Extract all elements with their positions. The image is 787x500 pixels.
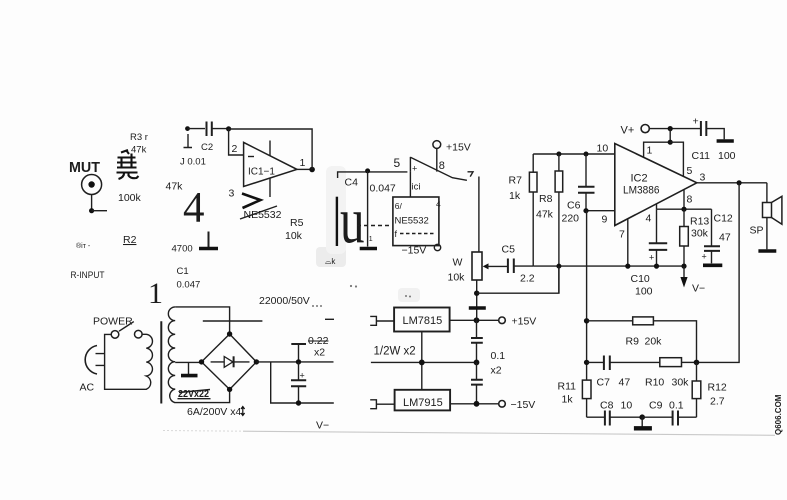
svg-text:V+: V+ <box>621 125 635 137</box>
node gnd right <box>474 360 480 366</box>
wire jack stem <box>91 195 93 211</box>
label x2 <box>491 365 502 377</box>
svg-text:30k: 30k <box>691 228 709 240</box>
svg-text:0.1: 0.1 <box>669 400 684 412</box>
node bridge right <box>254 359 259 364</box>
resistor R12 <box>692 362 701 417</box>
node C10 bottom <box>654 264 659 269</box>
wire gnd rail regulators <box>371 361 477 363</box>
connector 7815 input <box>370 316 394 325</box>
wire top rail stage2 <box>533 153 615 155</box>
wire dashes artifact <box>357 225 392 227</box>
connector stub below C2 <box>184 134 193 148</box>
svg-text:8: 8 <box>687 194 693 206</box>
wire secondary center tap <box>175 361 201 363</box>
wire jack stub <box>92 210 107 212</box>
label 10 C8 <box>621 400 633 412</box>
wire faint scan line <box>163 431 775 436</box>
label 4700 <box>172 244 193 255</box>
glyph artifact dots <box>312 285 411 307</box>
svg-text:R10: R10 <box>645 377 664 389</box>
node pin7 <box>625 264 630 269</box>
capacitor C7 <box>587 356 660 371</box>
svg-text:7: 7 <box>619 229 625 241</box>
glyph artifact u <box>340 185 365 258</box>
svg-text:x2: x2 <box>314 347 325 359</box>
wire stray horizontal <box>203 320 263 322</box>
IC LM7815 <box>394 308 450 332</box>
resistor R13 <box>680 209 689 266</box>
label -15V <box>511 399 536 411</box>
transformer T1 primary <box>105 334 153 389</box>
svg-text:10: 10 <box>621 400 633 412</box>
capacitor 0.1 lower <box>471 362 483 403</box>
node pot bottom <box>474 291 479 296</box>
svg-text:47: 47 <box>619 377 631 389</box>
svg-text:0.047: 0.047 <box>370 183 396 195</box>
svg-text:+: + <box>702 252 707 262</box>
svg-text:R-INPUT: R-INPUT <box>71 270 105 281</box>
label 0.1 C9 <box>669 400 684 412</box>
glyph artifact 1 <box>148 277 163 310</box>
node +15V <box>474 317 480 323</box>
label -15V op <box>402 245 427 257</box>
op-amp IC1-2 partial <box>410 157 467 180</box>
ground speaker <box>758 249 776 253</box>
label C10 <box>631 273 650 285</box>
label J 0.01 <box>180 157 206 168</box>
svg-text:10k: 10k <box>448 272 466 284</box>
svg-text:MUT: MUT <box>69 159 100 176</box>
svg-text:R12: R12 <box>708 382 727 394</box>
svg-text:8: 8 <box>439 160 445 172</box>
svg-text:u: u <box>340 185 365 258</box>
label 47k R3 <box>131 145 147 156</box>
label 2.7 R12 <box>710 396 725 408</box>
capacitor filter film <box>291 344 306 362</box>
label C6 <box>567 200 581 212</box>
label 0.047 C4 <box>370 183 396 195</box>
wire pin 8 <box>683 190 685 209</box>
wire secondary top <box>175 307 229 332</box>
label ici <box>412 182 421 193</box>
wire feedback drop <box>697 183 740 363</box>
label V- power <box>316 420 329 432</box>
svg-text:Q606.COM: Q606.COM <box>774 394 783 435</box>
wire bridge L drop <box>271 362 334 403</box>
artifact gray smudge <box>316 166 420 302</box>
wire pot gnd drop <box>476 280 478 320</box>
resistor R8 <box>555 154 563 293</box>
svg-text:IC2: IC2 <box>631 173 648 185</box>
label 22Vx2 struck <box>178 388 211 400</box>
svg-text:30k: 30k <box>672 377 690 389</box>
label C2 <box>201 142 213 153</box>
svg-text:47k: 47k <box>131 145 147 156</box>
svg-text:C2: C2 <box>201 142 213 153</box>
svg-text:+: + <box>412 164 417 174</box>
label 220 C6 <box>562 213 580 225</box>
svg-text:2.2: 2.2 <box>520 273 535 285</box>
label R5 <box>290 217 304 229</box>
label 30k R13 <box>691 228 709 240</box>
svg-text:1: 1 <box>647 145 653 157</box>
label R3 <box>130 132 148 143</box>
glyph artifact CJK <box>117 150 139 179</box>
wire V+ to C11 <box>649 128 700 130</box>
label 0.22 struck <box>308 335 329 347</box>
label pin 1 <box>300 157 306 169</box>
rectifier bridge D1 <box>202 334 257 389</box>
svg-text:C11: C11 <box>692 150 711 162</box>
label V+ <box>621 125 635 137</box>
svg-text:+: + <box>649 253 654 263</box>
wire mid rail <box>533 265 684 267</box>
node R8 top <box>556 152 561 157</box>
svg-text:100: 100 <box>718 150 736 162</box>
label 22000/50V <box>259 295 310 307</box>
wire feedback loop <box>229 129 313 170</box>
svg-text:−15V: −15V <box>511 399 536 411</box>
svg-text:LM7815: LM7815 <box>403 315 443 327</box>
svg-text:6A/200V x4: 6A/200V x4 <box>187 406 241 418</box>
label pin 2 <box>232 143 238 155</box>
ground feedback <box>634 417 652 428</box>
label +15V op <box>446 142 471 154</box>
svg-text:+: + <box>693 116 699 128</box>
svg-text:R13: R13 <box>690 216 709 228</box>
svg-text:9: 9 <box>602 214 608 226</box>
label 2.2 C5 <box>520 273 535 285</box>
label R13 <box>690 216 709 228</box>
wire secondary bottom <box>174 389 229 402</box>
wire C4 down <box>367 171 369 247</box>
node gnd fb <box>639 414 645 420</box>
wire 7815 out <box>450 319 499 321</box>
svg-text:R2: R2 <box>123 234 137 246</box>
terminal +15V op <box>433 141 441 149</box>
svg-text:NE5532: NE5532 <box>395 216 429 227</box>
wire pin 9 <box>586 210 615 212</box>
node V+ <box>668 126 673 131</box>
label C7 <box>597 377 611 389</box>
label pin 10 <box>597 143 609 155</box>
node pin1 V+ <box>668 140 673 145</box>
svg-text:100: 100 <box>635 286 653 298</box>
label 1k R7 <box>509 190 521 202</box>
capacitor C2 <box>188 122 229 137</box>
svg-text:1: 1 <box>148 277 163 310</box>
label C8 <box>600 400 614 412</box>
connector 7915 input <box>370 400 394 409</box>
label C5 <box>502 244 516 256</box>
label 0.047 C1 <box>177 280 201 291</box>
glyph artifact 4 <box>183 185 205 232</box>
glyph artifact gt <box>242 194 261 209</box>
svg-text:C5: C5 <box>502 244 516 256</box>
svg-text:C12: C12 <box>714 213 733 225</box>
wire +15V down <box>436 148 438 171</box>
node pin1 <box>309 167 315 173</box>
svg-text:R5: R5 <box>290 217 304 229</box>
svg-text:®іт -: ®іт - <box>76 242 91 250</box>
label C12 <box>714 213 733 225</box>
node R8 bottom <box>556 264 561 269</box>
label 47 C7 <box>619 377 631 389</box>
node pin8 <box>681 207 686 212</box>
svg-text:+15V: +15V <box>446 142 471 154</box>
node bridge top <box>227 331 232 336</box>
svg-text:2: 2 <box>232 143 238 155</box>
svg-text:1: 1 <box>369 236 373 243</box>
svg-text:C6: C6 <box>567 200 581 212</box>
capacitor C6 <box>578 154 595 211</box>
svg-text:+: + <box>300 371 305 381</box>
label R9 <box>626 336 640 348</box>
svg-text:47k: 47k <box>166 181 184 193</box>
label 1/2W x2 <box>374 346 416 358</box>
svg-text:C8: C8 <box>600 400 614 412</box>
ground stage1 <box>199 232 218 249</box>
svg-text:LM7915: LM7915 <box>403 397 443 409</box>
label POWER <box>93 316 133 328</box>
svg-text:3: 3 <box>700 172 706 184</box>
label AC <box>80 382 95 394</box>
wire pin 4 <box>657 204 712 209</box>
svg-text:220: 220 <box>562 213 580 225</box>
wire pin 7 <box>627 219 629 266</box>
svg-text:0.1: 0.1 <box>491 350 506 362</box>
wire C4 input <box>338 172 408 178</box>
label R-INPUT <box>71 270 105 281</box>
node R10 right <box>694 360 700 366</box>
node C7 left <box>584 360 589 365</box>
svg-text:1k: 1k <box>509 190 521 202</box>
ground pot bar <box>469 306 486 310</box>
label pin 9 <box>602 214 608 226</box>
label pin 8 <box>439 160 445 172</box>
node pin9 C6 <box>583 208 588 213</box>
svg-text:4: 4 <box>436 199 441 209</box>
node R9 left <box>584 318 589 323</box>
node C2 left <box>185 126 190 131</box>
svg-text:SP: SP <box>750 225 764 237</box>
capacitor C10 <box>649 209 667 266</box>
label pin 1 <box>647 145 653 157</box>
label 47k <box>166 181 184 193</box>
label R10 <box>645 377 664 389</box>
svg-text:4: 4 <box>646 213 652 225</box>
op-amp IC2 LM3886 <box>615 144 697 226</box>
svg-text:V−: V− <box>316 420 329 432</box>
label SP <box>750 225 764 237</box>
IC LM7915 <box>395 390 451 411</box>
svg-text:f: f <box>395 229 398 239</box>
wire V+ rail from bridge <box>256 361 333 363</box>
wire pin1 out <box>297 168 312 170</box>
node gnd mid <box>419 360 425 366</box>
svg-text:100k: 100k <box>118 192 142 204</box>
wire pot bottom to R8 <box>477 266 559 293</box>
label V- arrow <box>692 283 705 295</box>
svg-text:+15V: +15V <box>512 316 537 328</box>
transformer T1 secondary <box>168 307 175 403</box>
label 47k R8 <box>536 209 554 221</box>
wire op to box <box>409 172 411 197</box>
capacitor C11 <box>693 116 725 140</box>
svg-text:R3 r: R3 r <box>130 132 148 143</box>
svg-text:x2: x2 <box>491 365 502 377</box>
connector AC plug <box>85 346 104 375</box>
ground center tap <box>181 362 198 375</box>
label R8 <box>539 193 553 205</box>
power V- arrow <box>680 266 687 287</box>
label R7 <box>509 175 523 187</box>
label pin 8 <box>687 194 693 206</box>
wire op out to pot <box>478 177 480 253</box>
glyph artifact arrow <box>241 407 245 416</box>
svg-text:ici: ici <box>412 182 421 193</box>
label 0.1 <box>491 350 506 362</box>
wire pin1 path <box>644 129 671 158</box>
terminal V+ <box>641 125 649 133</box>
node C4 <box>365 168 370 173</box>
label 10k W <box>448 272 466 284</box>
svg-text:0.22: 0.22 <box>308 335 329 347</box>
label 47 C12 <box>719 232 731 244</box>
label pin 5 <box>394 156 401 170</box>
label MUT <box>69 159 100 176</box>
wire to pin2 <box>229 129 244 155</box>
svg-text:IC1−1: IC1−1 <box>248 167 275 178</box>
svg-text:1/2W x2: 1/2W x2 <box>374 346 416 358</box>
label R11 <box>558 381 577 393</box>
svg-text:4700: 4700 <box>172 244 193 255</box>
node bridge bottom <box>227 387 232 392</box>
node filter bottom <box>296 400 301 405</box>
resistor R11 <box>582 380 591 417</box>
svg-text:10k: 10k <box>285 230 303 242</box>
label x2 filter <box>314 347 325 359</box>
svg-text:10: 10 <box>597 143 609 155</box>
svg-text:0.047: 0.047 <box>177 280 201 291</box>
label pin 7 <box>619 229 625 241</box>
svg-text:5: 5 <box>394 156 401 170</box>
glyph artifact jk <box>325 257 336 266</box>
label pin 3 <box>229 188 235 200</box>
label R12 <box>708 382 727 394</box>
switch S1 <box>111 322 142 339</box>
connector J1 R-input jack <box>82 175 102 195</box>
svg-text:C10: C10 <box>631 273 650 285</box>
label 100k <box>118 192 142 204</box>
terminal +15V <box>499 317 506 324</box>
label pin 3 <box>700 172 706 184</box>
svg-text:6/: 6/ <box>395 201 403 211</box>
transformer core <box>160 321 162 403</box>
op-amp IC1-1 <box>244 141 297 198</box>
svg-text:5: 5 <box>687 165 693 177</box>
wire 7815 mid <box>421 332 423 390</box>
wire fb left vertical <box>586 211 588 380</box>
svg-text:47: 47 <box>719 232 731 244</box>
svg-text:J 0.01: J 0.01 <box>180 157 206 168</box>
label 10k R5 <box>285 230 303 242</box>
label R2 <box>123 234 137 246</box>
label watermark <box>774 394 783 435</box>
ground C12 <box>703 263 722 267</box>
ground C11 <box>717 139 734 143</box>
label 100 C10 <box>635 286 653 298</box>
svg-text:47k: 47k <box>536 209 554 221</box>
capacitor C8 <box>587 411 643 426</box>
label pin 7 mark <box>468 172 474 177</box>
label NE5532 struck <box>240 206 282 221</box>
terminal -15V op <box>434 244 440 250</box>
node C6 top <box>584 152 589 157</box>
wire pin5 path <box>670 142 683 176</box>
capacitor C12 <box>702 209 721 263</box>
node -15V <box>474 401 480 407</box>
node output <box>737 180 742 185</box>
resistor R7 <box>529 154 537 266</box>
svg-text:R7: R7 <box>509 175 523 187</box>
label +15V <box>512 316 537 328</box>
label trademark artifact <box>76 242 91 250</box>
capacitor C5 <box>508 259 533 274</box>
label 100 C11 <box>718 150 736 162</box>
capacitor filter electrolytic <box>291 362 306 403</box>
speaker SP <box>763 183 782 250</box>
IC NE5532 box <box>393 197 441 246</box>
resistor R10 <box>660 358 697 367</box>
svg-text:C1: C1 <box>177 266 189 277</box>
svg-text:1k: 1k <box>562 394 574 406</box>
wire 7915 out <box>450 403 498 405</box>
label pin 5 <box>687 165 693 177</box>
wire stub dash 7815 <box>325 318 334 320</box>
label W <box>453 257 463 269</box>
label C9 <box>649 400 663 412</box>
svg-text:C7: C7 <box>597 377 611 389</box>
svg-text:LM3886: LM3886 <box>623 185 660 197</box>
svg-text:R11: R11 <box>558 381 577 393</box>
svg-text:4: 4 <box>183 185 205 232</box>
label tiny 1 <box>369 236 373 243</box>
label C11 <box>692 150 711 162</box>
capacitor 0.1 upper <box>471 320 483 362</box>
node jack <box>89 208 94 213</box>
svg-text:W: W <box>453 257 463 269</box>
svg-text:2.7: 2.7 <box>710 396 725 408</box>
label 6A/200V x4 <box>187 406 241 418</box>
svg-text:−15V: −15V <box>402 245 427 257</box>
glyph artifact bar <box>336 197 338 246</box>
label 1k R11 <box>562 394 574 406</box>
svg-text:20k: 20k <box>645 336 663 348</box>
label C4 <box>345 177 359 189</box>
terminal -15V <box>499 401 506 408</box>
node R13 bottom <box>681 264 686 269</box>
label 20k R9 <box>645 336 663 348</box>
svg-text:AC: AC <box>80 382 95 394</box>
node bridge left <box>199 359 204 364</box>
svg-text:R9: R9 <box>626 336 640 348</box>
svg-text:V−: V− <box>692 283 705 295</box>
svg-text:3: 3 <box>229 188 235 200</box>
label pin 4 <box>646 213 652 225</box>
wire output <box>697 182 767 184</box>
